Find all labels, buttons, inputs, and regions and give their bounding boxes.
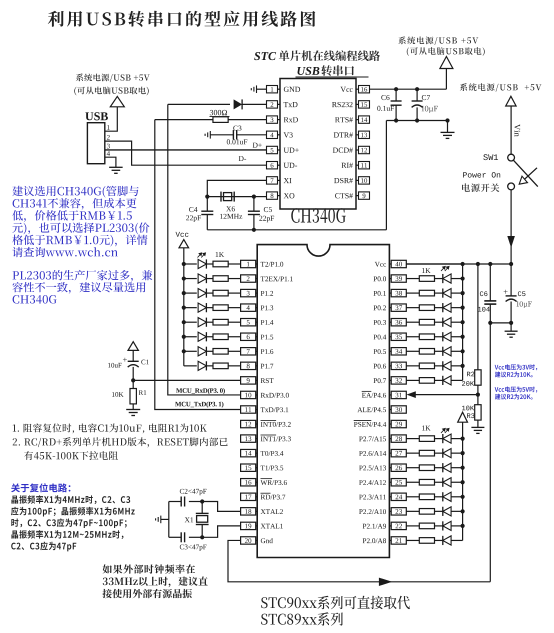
CH340G pin 15 RS232 — [359, 101, 370, 108]
MCU pin 5 P1.4 — [241, 319, 256, 326]
MCU pin 37 P0.2 — [391, 304, 406, 311]
note about reset circuit heading — [11, 483, 70, 492]
CH340G pin 14 RTS# — [359, 116, 370, 123]
note external clock — [103, 564, 196, 573]
MCU pin 22 P2.1/A9 — [391, 522, 406, 529]
wire EA to R2 junction — [476, 393, 480, 397]
label STC programming line — [254, 52, 276, 60]
LED row P0.5 — [461, 349, 465, 353]
MCU pin 8 P1.7 — [241, 362, 256, 369]
MCU pin 28 P2.7/A15 — [391, 435, 406, 442]
MCU pin 2 T2EX/P1.1 — [241, 275, 256, 282]
wire Gnd pin20 to ground line — [228, 540, 490, 581]
MCU pin 18 XTAL2 — [241, 508, 256, 515]
CH340G pin 11 RI# — [359, 162, 370, 169]
power arrow Vcc (reset) — [128, 342, 138, 351]
ground (CH340 pin1, sideways) — [257, 88, 267, 90]
wire pin40 Vcc to bus — [406, 263, 462, 265]
MCU pin 32 P0.7 — [391, 377, 406, 384]
ground (C6/C7) — [447, 121, 449, 133]
label 1K (left) — [216, 252, 224, 257]
IC U1 CH340G body — [280, 79, 356, 210]
label MCU_TxD(P3.1) — [175, 402, 223, 408]
LED emission arrows (right group2) — [441, 428, 449, 433]
wire right LED rail group2 — [462, 422, 464, 540]
wire switch to Vcc bus with arrow — [510, 190, 512, 264]
crystal X6 12MHz circuit — [207, 180, 266, 196]
label USB — [85, 112, 108, 120]
CH340G pin 7 XI — [267, 177, 278, 184]
power arrow Vcc (left rail) — [179, 240, 189, 248]
LED row P2.1 — [461, 524, 465, 528]
label CH340G — [291, 208, 346, 223]
MCU pin 39 P0.0 — [391, 275, 406, 282]
MCU pin 3 P1.2 — [241, 289, 256, 296]
ground (R1) — [126, 410, 140, 416]
MCU pin 17 RD/P3.7 — [241, 493, 256, 500]
LED row P2.0 — [406, 539, 419, 541]
MCU pin 36 P0.3 — [391, 319, 406, 326]
MCU pin 9 RST — [241, 377, 256, 384]
LED D3 row P1.1 — [182, 276, 186, 280]
LED emission arrows (left) — [198, 253, 206, 258]
resistor R2 20K — [477, 264, 479, 370]
MCU pin 7 P1.6 — [241, 348, 256, 355]
label STC90xx series — [261, 596, 410, 610]
MCU pin 13 INT1/P3.3 — [241, 435, 256, 442]
label USB to serial — [297, 67, 319, 75]
capacitor C5 22pF (crystal) — [253, 197, 255, 212]
LED row P2.4 — [461, 480, 465, 484]
wire RST — [133, 379, 240, 381]
LED D6 row P1.4 — [182, 320, 186, 324]
power arrow Vin — [506, 96, 516, 106]
MCU pin 33 P0.6 — [391, 362, 406, 369]
MCU pin 11 TxD/P3.1 — [241, 406, 256, 413]
MCU pin 31 EA/P4.6 — [391, 391, 406, 398]
LED row P2.2 — [461, 509, 465, 513]
CH340G pin 4 V3 — [267, 131, 278, 138]
label Vcc (left rail) — [176, 232, 189, 237]
CH340G pin 1 GND — [267, 86, 278, 93]
note Vcc voltage R2 (blue right) — [495, 364, 538, 370]
LED row P2.3 — [461, 495, 465, 499]
wire Vcc pin16 — [370, 88, 447, 90]
LED D9 row P1.7 — [184, 365, 197, 367]
LED row P0.3 — [461, 320, 465, 324]
MCU pin 29 PSEN/P4.4 — [391, 420, 406, 427]
diode D1 on TxD line — [168, 103, 230, 105]
MCU pin 19 XTAL1 — [241, 522, 256, 529]
LED row P0.0 — [461, 276, 465, 280]
MCU pin 15 T1/P3.5 — [241, 464, 256, 471]
crystal X1 symbol — [200, 499, 204, 503]
wire USB pin3 to UD+ (D+) — [105, 149, 267, 151]
note reset circuit body — [11, 495, 130, 504]
wire Vin — [510, 106, 512, 154]
LED D8 row P1.6 — [182, 349, 186, 353]
LED row P0.4 — [461, 335, 465, 339]
label SW1 — [483, 154, 498, 160]
wire USB pin2 to UD- — [105, 141, 267, 165]
ground (USB) — [109, 167, 123, 173]
wire USB pin4 to ground — [105, 157, 116, 167]
resistor R3 10K — [477, 395, 479, 405]
wire left LED rail — [183, 248, 185, 366]
label D+ — [253, 143, 262, 148]
note blue paragraph 2 — [13, 270, 153, 282]
LED row P2.5 — [461, 466, 465, 470]
CH340G pin 3 RxD — [267, 116, 278, 123]
capacitor C2 47pF — [189, 501, 202, 503]
wire ground line down — [489, 323, 491, 582]
capacitor C6 0.1uF — [395, 89, 397, 101]
CH340G pin 13 DTR# — [359, 131, 370, 138]
capacitor C4 22pF — [206, 197, 208, 212]
LED row P2.7 — [461, 437, 465, 441]
IC U2 STC90xx MCU body — [257, 245, 389, 558]
note numbered 1-2 — [13, 424, 207, 434]
capacitor C1 10uF — [132, 350, 134, 361]
capacitor C3 0.01uF — [210, 134, 233, 136]
LED emission arrows (right group1) — [441, 266, 449, 271]
MCU pin 23 P2.2/A10 — [391, 508, 406, 515]
MCU pin 16 WR/P3.6 — [241, 479, 256, 486]
MCU pin 25 P2.4/A12 — [391, 479, 406, 486]
MCU pin 14 T0/P3.4 — [241, 449, 256, 456]
MCU pin 10 RxD/P3.0 — [241, 391, 256, 398]
label power switch CJK — [462, 183, 499, 192]
MCU pin 35 P0.4 — [391, 333, 406, 340]
LED row P0.6 — [461, 364, 465, 368]
MCU pin 6 P1.5 — [241, 333, 256, 340]
CH340G pin 5 UD+ — [267, 146, 278, 153]
capacitor C6 104 — [489, 264, 491, 301]
wire right ground rail — [490, 322, 511, 324]
capacitor C3 47pF (MCU) — [189, 536, 202, 538]
MCU pin 1 T2/P1.0 — [241, 260, 256, 267]
resistor 300ohm — [155, 119, 213, 121]
label system power USB +5V (left) — [76, 74, 150, 83]
LED D2 row P1.0 — [182, 262, 186, 266]
wire right LED rail group1 — [462, 264, 464, 380]
switch SW1 — [508, 154, 515, 161]
wire MCU_RxD vertical — [168, 104, 241, 395]
label C2 47pF — [180, 489, 207, 495]
label system power (far right) — [460, 83, 542, 92]
MCU pin 24 P2.3/A11 — [391, 493, 406, 500]
LED D5 row P1.3 — [182, 306, 186, 310]
CH340G pin 10 DSR# — [359, 177, 370, 184]
LED row P0.1 — [461, 291, 465, 295]
capacitor C5 10uF (right) — [510, 264, 512, 296]
label system power (top right) — [398, 36, 478, 45]
label MCU_RxD(P3.0) — [176, 388, 225, 394]
CH340G pin 12 DCD# — [359, 146, 370, 153]
LED D7 row P1.5 — [182, 335, 186, 339]
MCU pin 34 P0.5 — [391, 348, 406, 355]
connector USB J1 — [87, 123, 104, 164]
MCU pin 30 ALE/P4.5 — [391, 406, 406, 413]
MCU pin 26 P2.5/A13 — [391, 464, 406, 471]
label C3 47pF — [180, 545, 207, 551]
crystal X1 circuit — [202, 502, 240, 512]
label Vin (rotated) — [514, 124, 520, 137]
CH340G pin 6 UD- — [267, 162, 278, 169]
wire MCU_TxD vertical — [155, 120, 241, 410]
power arrow Vcc (right group2) — [458, 412, 468, 422]
title text — [48, 11, 316, 27]
power arrow +5V (CH340) — [440, 57, 453, 69]
MCU pin 38 P0.1 — [391, 289, 406, 296]
resistor R1 10K — [132, 380, 134, 388]
label 1K (right group2) — [422, 426, 430, 431]
LED D4 row P1.2 — [182, 291, 186, 295]
MCU pin 40 Vcc — [391, 260, 406, 267]
label 1K (right group1) — [422, 268, 430, 273]
MCU pin 4 P1.3 — [241, 304, 256, 311]
MCU pin 12 INT0/P3.2 — [241, 420, 256, 427]
label Power On — [463, 172, 500, 177]
wire Vcc bus — [406, 263, 511, 265]
MCU pin 20 Gnd — [241, 537, 256, 544]
CH340G pin 8 XO — [267, 192, 278, 199]
capacitor C7 10uF — [416, 89, 418, 101]
power arrow +5V (USB) — [110, 96, 124, 106]
MCU pin 21 P2.0/A8 — [391, 537, 406, 544]
LED row P0.2 — [461, 306, 465, 310]
wire USB pin1 to +5V — [105, 107, 118, 131]
LED row P2.6 — [461, 451, 465, 455]
MCU pin 27 P2.6/A14 — [391, 449, 406, 456]
LED row P0.7 — [406, 379, 419, 381]
wire X1 left rail to ground — [168, 502, 170, 538]
CH340G pin 2 TxD — [267, 101, 278, 108]
wire C6 C7 ground rail — [386, 120, 447, 122]
CH340G pin 16 Vcc — [359, 86, 370, 93]
ground (C5 right) — [510, 323, 512, 331]
label D- — [239, 156, 246, 161]
ground (R3) — [471, 427, 484, 433]
wire crystal ground rail — [207, 229, 386, 231]
note blue paragraph 1 — [12, 186, 138, 198]
CH340G pin 9 CTS# — [359, 192, 370, 199]
